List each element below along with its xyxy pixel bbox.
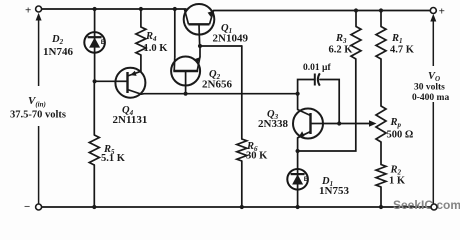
- svg-text:1.0 K: 1.0 K: [144, 43, 169, 54]
- svg-text:R1: R1: [391, 33, 403, 45]
- Vo measurement arrow: [432, 17, 434, 204]
- node dot R3 top: [354, 8, 358, 12]
- wire R4 top lead: [140, 9, 142, 27]
- wire Q2 emitter to node N1: [199, 46, 201, 57]
- wire top rail right (Q1 emitter to output +): [214, 10, 431, 12]
- wire Rp bottom to R2 top: [380, 142, 382, 165]
- wire D2 top lead: [94, 9, 96, 33]
- svg-text:4.7 K: 4.7 K: [390, 45, 415, 56]
- wire D1 top lead: [297, 151, 299, 169]
- wire Q2 collector lead: [174, 9, 176, 57]
- capacitor C1 0.01 uf: [315, 73, 320, 85]
- transistor Q1 2N1049: [184, 4, 215, 35]
- svg-text:−: −: [24, 201, 30, 213]
- svg-text:30 K: 30 K: [246, 151, 268, 162]
- node dot A (D2/Q4 base/R5): [93, 79, 97, 83]
- transistor Q2 2N656: [171, 57, 200, 86]
- wire R6 bottom lead: [241, 161, 243, 207]
- wire Q3 base to pot wiper arrow: [323, 123, 374, 125]
- svg-text:2N656: 2N656: [202, 79, 232, 91]
- node dot R2 bottom: [379, 205, 383, 209]
- svg-text:B: B: [304, 176, 309, 183]
- wire node A to R5: [93, 81, 95, 135]
- svg-text:VO: VO: [428, 71, 440, 83]
- wire Q4 collector to N2 rail: [141, 93, 297, 96]
- node dot R4 top: [139, 7, 143, 11]
- output terminal - (bottom right): [431, 204, 437, 210]
- svg-text:30 volts: 30 volts: [414, 83, 445, 93]
- wire R2 bottom lead: [380, 187, 382, 207]
- wire node N1 horizontal: [200, 45, 242, 47]
- wire Q2 base lead: [185, 71, 187, 94]
- node dot D1 bottom: [296, 205, 300, 209]
- node dot R6 bottom: [240, 205, 244, 209]
- resistor R4 1.0 K: [136, 27, 146, 55]
- resistor R5 5.1 K: [89, 135, 99, 165]
- diode D2 1N746 zener: [84, 32, 106, 53]
- node dot Q2 collector top: [173, 7, 177, 11]
- svg-text:Rp: Rp: [390, 117, 402, 129]
- input terminal + (top left): [36, 6, 42, 12]
- svg-text:1 K: 1 K: [389, 176, 406, 187]
- wire Q3 emitter junction to R3 bottom: [298, 59, 356, 151]
- wire R5 bottom lead: [93, 165, 95, 207]
- wire Q3 collector vertical: [297, 94, 299, 110]
- svg-text:5.1 K: 5.1 K: [101, 153, 126, 164]
- diode D1 1N753 zener: [287, 169, 308, 190]
- input terminal - (bottom left): [36, 204, 42, 210]
- wire Q1 base lead: [198, 35, 200, 46]
- output terminal + (top right): [430, 8, 436, 14]
- svg-text:+: +: [439, 6, 445, 18]
- node dot D2 top: [93, 7, 97, 11]
- transistor Q3 2N338: [293, 109, 323, 139]
- wire capacitor branch up from N2: [298, 80, 315, 94]
- wire bottom rail: [42, 206, 432, 208]
- wire node N1 vertical down to R6: [241, 46, 243, 139]
- node dot N1 (Q1 base/Q2 emitter): [198, 44, 202, 48]
- wire capacitor right side to Q3 base: [320, 80, 339, 124]
- svg-text:0-400 ma: 0-400 ma: [412, 93, 449, 103]
- svg-text:+: +: [25, 5, 31, 17]
- wire Q3 emitter vertical: [297, 138, 299, 151]
- wire R3 top lead: [355, 11, 357, 27]
- svg-text:B: B: [101, 39, 106, 46]
- svg-text:2N338: 2N338: [258, 118, 288, 130]
- svg-text:1N753: 1N753: [319, 185, 349, 197]
- svg-text:0.01 µf: 0.01 µf: [303, 63, 331, 73]
- node dot N2/Q3 collector: [296, 92, 300, 96]
- pot wiper arrowhead: [369, 120, 377, 126]
- potentiometer Rp 500 ohm element: [376, 106, 386, 142]
- resistor R6 30 K: [237, 139, 247, 161]
- svg-text:1N746: 1N746: [43, 46, 73, 58]
- wire R1 top lead: [380, 11, 382, 27]
- svg-text:37.5-70 volts: 37.5-70 volts: [10, 110, 66, 121]
- wire top rail left: [42, 8, 187, 10]
- wire R1 bottom to Rp top: [380, 59, 382, 106]
- node dot Q2 base on N2: [184, 92, 188, 96]
- svg-text:500 Ω: 500 Ω: [387, 130, 414, 141]
- resistor R2 1 K: [376, 165, 386, 188]
- resistor R1 4.7 K: [376, 27, 386, 60]
- Vin measurement arrow: [38, 16, 40, 204]
- svg-text:SeekIC.com: SeekIC.com: [393, 198, 460, 212]
- node dot Q3 emitter/R3/D1: [296, 149, 300, 153]
- svg-text:R3: R3: [335, 33, 347, 45]
- svg-text:2N1131: 2N1131: [113, 114, 148, 126]
- wire D2 bottom lead to node A: [94, 52, 96, 81]
- node dot R1 top: [379, 8, 383, 12]
- resistor R3 6.2 K: [351, 27, 361, 60]
- node dot cap to base line: [337, 121, 341, 125]
- svg-text:D2: D2: [51, 34, 64, 46]
- wire Q4 base from node A: [95, 80, 116, 82]
- svg-text:6.2 K: 6.2 K: [329, 45, 354, 56]
- wire D1 bottom lead: [297, 190, 299, 208]
- node dot R5 bottom: [92, 205, 96, 209]
- svg-text:2N1049: 2N1049: [213, 33, 249, 45]
- wire R4 bottom to Q4 emitter: [140, 55, 142, 71]
- svg-text:R4: R4: [145, 31, 157, 43]
- transistor Q4 2N1131 (PNP): [115, 68, 145, 98]
- svg-text:V(in): V(in): [28, 95, 46, 109]
